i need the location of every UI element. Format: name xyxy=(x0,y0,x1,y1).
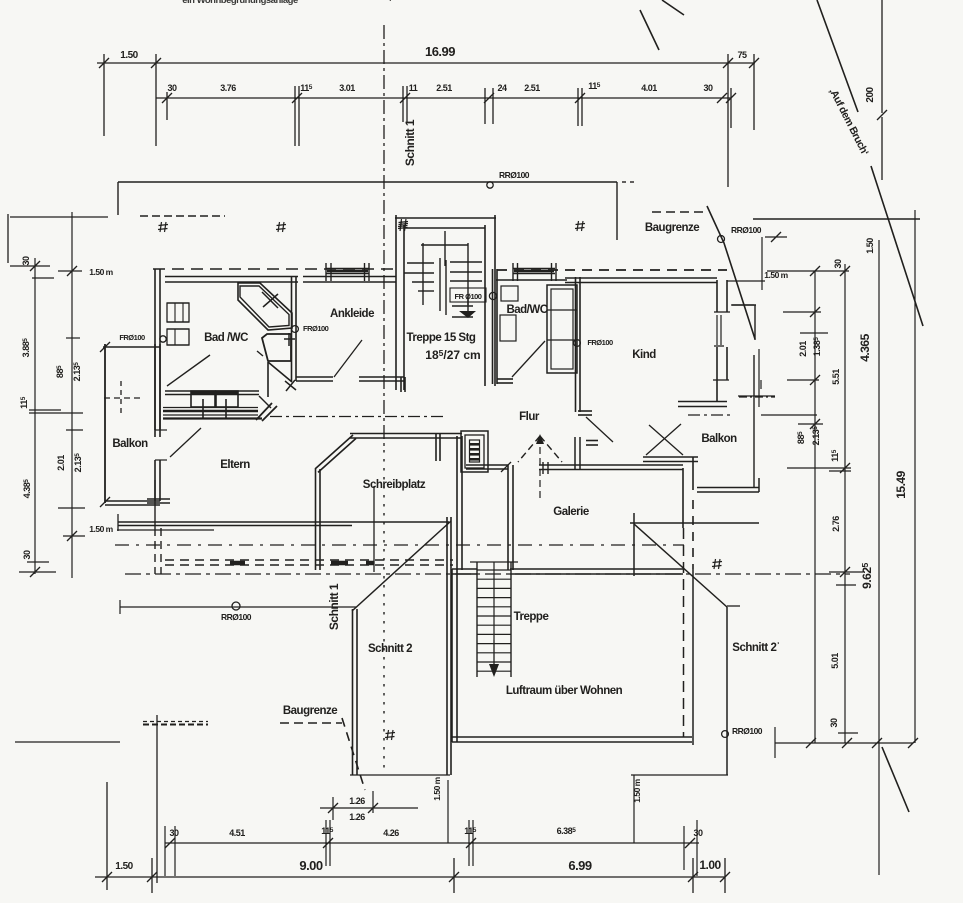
svg-text:1.50: 1.50 xyxy=(865,238,875,254)
svg-text:RRØ100: RRØ100 xyxy=(732,726,763,736)
svg-text:1.50 m: 1.50 m xyxy=(764,270,788,280)
svg-text:Schnitt 2ʾ: Schnitt 2ʾ xyxy=(732,642,779,654)
svg-text:RRØ100: RRØ100 xyxy=(499,170,530,180)
svg-text:2.51: 2.51 xyxy=(524,83,540,93)
svg-text:2.76: 2.76 xyxy=(831,516,841,532)
svg-text:FRØ100: FRØ100 xyxy=(587,338,613,347)
svg-text:Balkon: Balkon xyxy=(112,438,148,450)
svg-text:FRØ100: FRØ100 xyxy=(119,333,145,342)
svg-text:30: 30 xyxy=(21,256,31,266)
svg-text:Treppe 15 Stg: Treppe 15 Stg xyxy=(407,332,476,344)
svg-text:Bad/WC: Bad/WC xyxy=(506,304,547,316)
svg-text:Luftraum über Wohnen: Luftraum über Wohnen xyxy=(506,685,623,697)
svg-text:Ankleide: Ankleide xyxy=(330,308,374,320)
svg-text:Schnitt 2: Schnitt 2 xyxy=(368,643,412,655)
svg-text:1.50 m: 1.50 m xyxy=(89,267,113,277)
svg-text:Flur: Flur xyxy=(519,411,540,423)
svg-text:16.99: 16.99 xyxy=(425,44,455,59)
svg-text:FRØ100: FRØ100 xyxy=(303,324,329,333)
svg-text:4.26: 4.26 xyxy=(383,828,399,838)
svg-text:9.00: 9.00 xyxy=(299,858,323,873)
svg-text:3.01: 3.01 xyxy=(339,83,355,93)
svg-text:Schnitt 1: Schnitt 1 xyxy=(403,119,417,166)
svg-text:RRØ100: RRØ100 xyxy=(221,612,252,622)
svg-text:11: 11 xyxy=(409,83,418,93)
svg-text:30: 30 xyxy=(829,718,839,728)
svg-text:1.00: 1.00 xyxy=(699,858,721,872)
svg-text:4.365: 4.365 xyxy=(858,333,872,361)
svg-text:30: 30 xyxy=(22,550,32,560)
svg-text:2.01: 2.01 xyxy=(56,455,66,471)
svg-text:3.76: 3.76 xyxy=(220,83,236,93)
svg-text:RRØ100: RRØ100 xyxy=(731,225,762,235)
svg-text:200: 200 xyxy=(865,86,876,102)
svg-text:Kind: Kind xyxy=(632,349,656,361)
svg-text:Baugrenze: Baugrenze xyxy=(283,705,337,717)
svg-text:2.51: 2.51 xyxy=(436,83,452,93)
svg-text:Balkon: Balkon xyxy=(701,433,737,445)
svg-text:Bad /WC: Bad /WC xyxy=(204,332,248,344)
svg-text:30: 30 xyxy=(693,828,703,838)
svg-text:5.51: 5.51 xyxy=(831,369,841,385)
svg-text:15.49: 15.49 xyxy=(894,470,908,498)
svg-text:75: 75 xyxy=(737,50,747,60)
svg-text:30: 30 xyxy=(703,83,713,93)
svg-text:Baugrenze: Baugrenze xyxy=(645,222,699,234)
svg-text:30: 30 xyxy=(833,259,843,269)
svg-text:Eltern: Eltern xyxy=(220,459,250,471)
svg-text:6.99: 6.99 xyxy=(568,858,592,873)
svg-text:Galerie: Galerie xyxy=(553,506,589,518)
svg-text:4.51: 4.51 xyxy=(229,828,245,838)
svg-text:5.01: 5.01 xyxy=(830,653,840,669)
svg-text:ein Wohnbegrünungsanlage: ein Wohnbegrünungsanlage xyxy=(182,0,298,6)
svg-text:1.50: 1.50 xyxy=(115,861,133,872)
svg-text:24: 24 xyxy=(497,83,507,93)
svg-text:2.01: 2.01 xyxy=(798,341,808,357)
svg-text:30: 30 xyxy=(169,828,179,838)
svg-text:+: + xyxy=(387,0,393,5)
svg-text:Treppe: Treppe xyxy=(514,611,549,623)
svg-text:1.26: 1.26 xyxy=(349,796,365,806)
svg-text:1.50 m: 1.50 m xyxy=(89,524,113,534)
svg-text:FR Ø100: FR Ø100 xyxy=(455,292,482,301)
svg-text:1.26: 1.26 xyxy=(349,812,365,822)
svg-text:185/27 cm: 185/27 cm xyxy=(425,348,480,362)
svg-text:30: 30 xyxy=(167,83,177,93)
svg-text:4.01: 4.01 xyxy=(641,83,657,93)
svg-text:1.50: 1.50 xyxy=(120,50,138,61)
svg-text:1.50 m: 1.50 m xyxy=(432,776,442,800)
svg-text:Schreibplatz: Schreibplatz xyxy=(363,479,426,491)
